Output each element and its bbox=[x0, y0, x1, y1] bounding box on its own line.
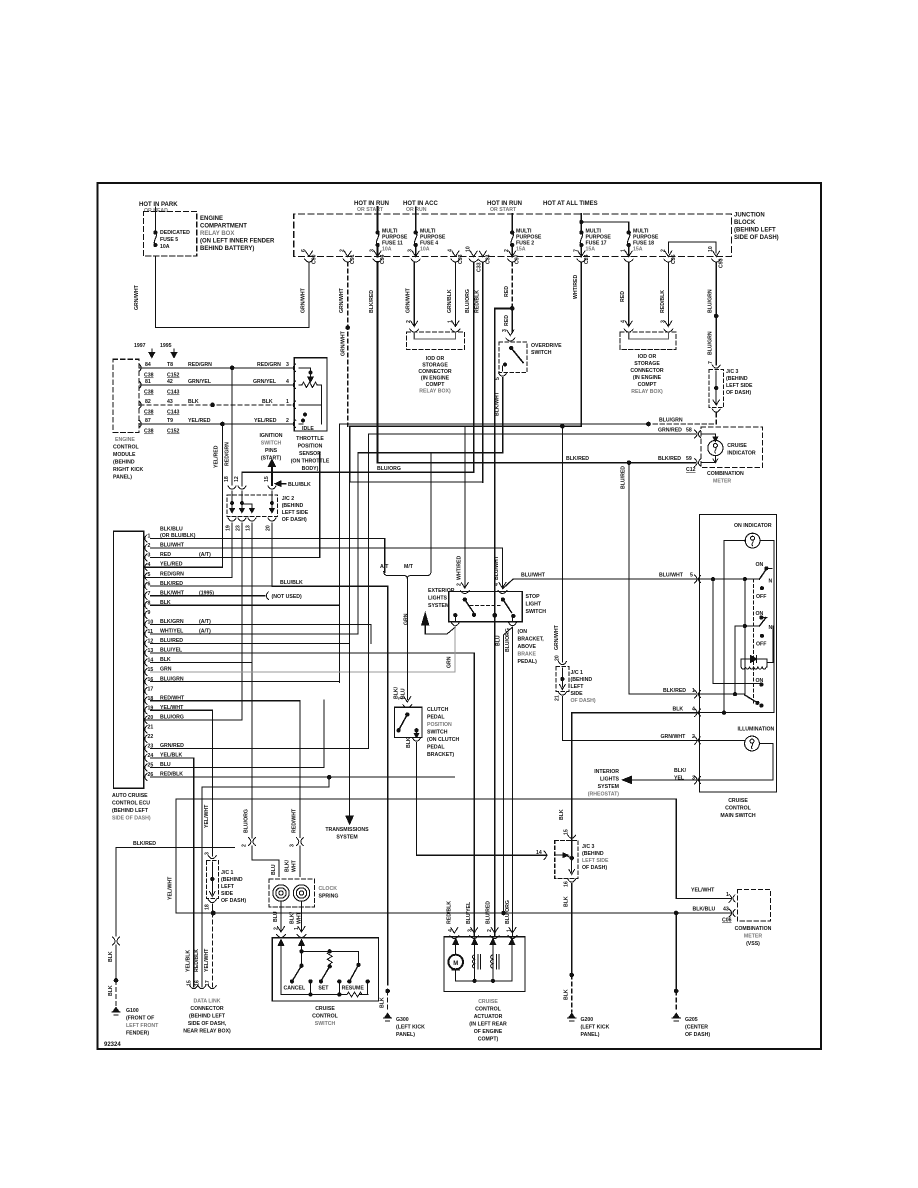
svg-text:4: 4 bbox=[148, 562, 151, 568]
svg-text:92324: 92324 bbox=[104, 1042, 121, 1048]
svg-text:3: 3 bbox=[660, 320, 666, 323]
svg-text:21: 21 bbox=[555, 695, 561, 701]
svg-text:BODY): BODY) bbox=[302, 466, 319, 472]
svg-text:GRN/YEL: GRN/YEL bbox=[253, 379, 277, 385]
svg-text:BLK/: BLK/ bbox=[394, 686, 400, 699]
pin 1 inner rail bbox=[511, 943, 513, 949]
wire BLK from clutch switch to J/C3 lower bbox=[417, 743, 548, 856]
clock spring box bbox=[269, 879, 315, 907]
svg-text:C94: C94 bbox=[380, 254, 386, 264]
svg-text:IOD OR: IOD OR bbox=[426, 356, 445, 362]
svg-text:7: 7 bbox=[573, 249, 579, 252]
wire BLU/ORG horizontal into J/C2 bbox=[242, 472, 474, 486]
J/C 3 connector (lower) bbox=[544, 851, 547, 859]
wire BLK/RED C94-3 down bbox=[377, 262, 379, 463]
coil 2 bbox=[492, 943, 494, 955]
break connector on BLK wire bbox=[113, 937, 120, 945]
connector arcs C12 pins 58/59 bbox=[695, 430, 701, 438]
diode and coil bbox=[741, 659, 767, 667]
combination meter VSS dashed box bbox=[737, 889, 770, 921]
svg-text:OR START: OR START bbox=[490, 207, 517, 213]
wire BLK pin4 to G200 bbox=[572, 713, 700, 860]
svg-text:(IN ENGINE: (IN ENGINE bbox=[633, 375, 662, 381]
overdrive switch bbox=[506, 330, 515, 341]
svg-text:CANCEL: CANCEL bbox=[284, 986, 306, 992]
interior lights system arrow bbox=[623, 776, 632, 783]
connector C94 pin 3 bbox=[373, 251, 382, 262]
engine control module dashed box bbox=[113, 359, 139, 432]
svg-text:PINS: PINS bbox=[265, 448, 278, 454]
svg-text:C93: C93 bbox=[458, 254, 464, 264]
svg-text:RELAY BOX: RELAY BOX bbox=[200, 231, 234, 237]
ground G100 bbox=[112, 1007, 120, 1014]
svg-text:ON INDICATOR: ON INDICATOR bbox=[734, 523, 772, 529]
svg-text:OFF: OFF bbox=[756, 642, 766, 648]
connector C91 pin 2 bbox=[343, 251, 352, 262]
wire ECU pin 10 row bbox=[151, 623, 371, 625]
svg-text:YEL/BLK: YEL/BLK bbox=[185, 950, 191, 972]
svg-text:SIDE OF DASH): SIDE OF DASH) bbox=[112, 816, 151, 822]
ECU pin 20 BLU/ORG bbox=[145, 716, 147, 723]
BLK/RED pin 1 row bbox=[700, 693, 745, 695]
svg-text:RED/GRN: RED/GRN bbox=[257, 362, 281, 368]
svg-text:2: 2 bbox=[504, 249, 510, 252]
svg-text:G100: G100 bbox=[126, 1008, 139, 1014]
IOD or storage connector box 2 bbox=[620, 332, 676, 350]
svg-text:C152: C152 bbox=[167, 429, 180, 435]
svg-text:IDLE: IDLE bbox=[302, 426, 314, 432]
svg-text:(BEHIND: (BEHIND bbox=[582, 851, 604, 857]
svg-text:YEL/RED: YEL/RED bbox=[214, 445, 220, 468]
wire ECU pin 24 row bbox=[151, 757, 194, 759]
svg-text:BLU/BLK: BLU/BLK bbox=[280, 580, 303, 586]
svg-text:18: 18 bbox=[224, 476, 230, 482]
svg-text:COMPT: COMPT bbox=[426, 382, 446, 388]
svg-text:BLK: BLK bbox=[563, 896, 569, 907]
svg-text:(BEHIND: (BEHIND bbox=[221, 877, 243, 883]
svg-text:WHT: WHT bbox=[297, 911, 303, 924]
svg-text:(LEFT KICK: (LEFT KICK bbox=[581, 1025, 610, 1031]
svg-text:FENDER): FENDER) bbox=[126, 1031, 149, 1037]
svg-text:J/C 1: J/C 1 bbox=[571, 670, 584, 676]
svg-text:3: 3 bbox=[205, 852, 211, 855]
wire GRN/WHT vertical segment bbox=[349, 426, 351, 482]
svg-text:BLK: BLK bbox=[406, 737, 412, 748]
svg-text:2: 2 bbox=[242, 844, 248, 847]
svg-text:(ON LEFT INNER FENDER: (ON LEFT INNER FENDER bbox=[200, 239, 275, 245]
svg-text:YEL/RED: YEL/RED bbox=[188, 418, 211, 424]
svg-text:(BEHIND: (BEHIND bbox=[571, 677, 593, 683]
svg-text:CONTROL: CONTROL bbox=[312, 1014, 338, 1020]
svg-text:BLOCK: BLOCK bbox=[734, 220, 756, 226]
svg-text:4: 4 bbox=[286, 379, 289, 385]
wire into fuse 5 bbox=[154, 207, 156, 232]
svg-text:C24: C24 bbox=[584, 254, 590, 264]
svg-text:GRN/WHT: GRN/WHT bbox=[134, 284, 140, 310]
svg-text:(BEHIND LEFT: (BEHIND LEFT bbox=[112, 808, 149, 814]
svg-text:ABOVE: ABOVE bbox=[518, 644, 537, 650]
svg-text:BLU/RED: BLU/RED bbox=[621, 466, 627, 489]
svg-text:1: 1 bbox=[621, 249, 627, 252]
bottom bus with resistor bbox=[281, 994, 347, 996]
wire RED (A/T) pin 3 vertical bbox=[319, 453, 321, 558]
ground G300 wire bbox=[386, 989, 390, 993]
wire YEL/BLK pin 24 down to data link bbox=[193, 758, 195, 987]
svg-text:10A: 10A bbox=[382, 247, 392, 253]
svg-text:SYSTEM: SYSTEM bbox=[336, 835, 357, 841]
svg-text:BLU/WHT: BLU/WHT bbox=[494, 555, 500, 580]
svg-text:WHT: WHT bbox=[292, 859, 298, 872]
wire ECU pin 16 row bbox=[151, 681, 340, 683]
svg-text:C33: C33 bbox=[476, 262, 482, 272]
J/C 3 connector (upper) bbox=[712, 365, 720, 368]
svg-text:FUSE 5: FUSE 5 bbox=[160, 237, 178, 243]
connector C34 pin 9 bbox=[478, 251, 487, 262]
wire A/T stem from ECU pin 1 bbox=[384, 538, 386, 572]
bulb left rail to BLK pin bbox=[724, 541, 745, 713]
auto cruise control ECU connector box bbox=[114, 531, 144, 788]
svg-text:EXTERIOR: EXTERIOR bbox=[428, 588, 455, 594]
svg-text:GRN/WHT: GRN/WHT bbox=[301, 287, 307, 313]
connector pin 1 bbox=[624, 251, 633, 262]
svg-text:1997: 1997 bbox=[134, 343, 146, 349]
svg-text:BLK/RED: BLK/RED bbox=[133, 841, 156, 847]
wire GRN/WHT to IOD bbox=[413, 262, 415, 326]
svg-text:1: 1 bbox=[294, 927, 300, 930]
svg-text:2: 2 bbox=[406, 320, 412, 323]
svg-text:LIGHT: LIGHT bbox=[526, 602, 542, 608]
svg-text:T8: T8 bbox=[167, 362, 173, 368]
svg-text:YEL: YEL bbox=[674, 776, 685, 782]
IOD connector 2 arcs pins 4,3 bbox=[624, 321, 633, 332]
svg-text:OR START: OR START bbox=[357, 207, 384, 213]
svg-text:POSITION: POSITION bbox=[298, 444, 323, 450]
svg-text:BLK: BLK bbox=[108, 985, 114, 996]
svg-text:81: 81 bbox=[145, 379, 151, 385]
wire RED/BLK horizontal bbox=[350, 481, 483, 483]
svg-text:20: 20 bbox=[266, 525, 272, 531]
svg-text:BLK/RED: BLK/RED bbox=[658, 456, 681, 462]
wire ECU pin 25 row bbox=[151, 767, 325, 769]
svg-text:10: 10 bbox=[466, 246, 472, 252]
wire GRN/RED vertical to ECU pin 23 bbox=[367, 434, 369, 749]
svg-text:BLK: BLK bbox=[188, 399, 199, 405]
dashed link bbox=[752, 579, 754, 704]
svg-text:BRACKET): BRACKET) bbox=[427, 752, 454, 758]
svg-text:BLK: BLK bbox=[559, 809, 565, 820]
wire YEL/RED vertical to J/C2 bypass bbox=[144, 424, 223, 567]
wire BLU/BLK from J/C2-20 to right bbox=[272, 585, 388, 587]
svg-text:OF DASH): OF DASH) bbox=[726, 390, 751, 396]
svg-text:GRN/WHT: GRN/WHT bbox=[661, 734, 687, 740]
svg-text:ACTUATOR: ACTUATOR bbox=[474, 1014, 503, 1020]
svg-text:RED/BLK: RED/BLK bbox=[446, 901, 452, 924]
svg-text:15A: 15A bbox=[586, 247, 596, 253]
ECU pin 3 RED bbox=[145, 554, 147, 561]
svg-text:C06: C06 bbox=[722, 918, 732, 924]
ECM row 2 GRN/YEL bbox=[140, 384, 294, 386]
wire RED C97-2 down (dashed then solid) bbox=[511, 262, 513, 308]
wire J/C2-20 BLU/BLK down bbox=[271, 523, 273, 586]
wire BLU down-left from stop light switch bbox=[504, 627, 513, 913]
BLK pin 4 row bbox=[700, 712, 775, 714]
svg-text:SPRING: SPRING bbox=[319, 894, 339, 900]
svg-text:PANEL): PANEL) bbox=[113, 475, 132, 481]
svg-text:SENSOR: SENSOR bbox=[299, 451, 321, 457]
resume switch bbox=[357, 963, 360, 966]
wire ECU pin 26 row bbox=[151, 776, 455, 778]
wire GRN/BLK to IOD bbox=[454, 262, 456, 326]
svg-text:BLU/YEL: BLU/YEL bbox=[466, 901, 472, 924]
svg-text:59: 59 bbox=[686, 456, 692, 462]
border frame bbox=[98, 183, 822, 1049]
svg-text:13: 13 bbox=[246, 525, 252, 531]
ECU pin 21 nc bbox=[145, 726, 147, 733]
svg-text:YEL/WHT: YEL/WHT bbox=[204, 948, 210, 972]
svg-text:BLU: BLU bbox=[495, 635, 501, 646]
svg-text:METER: METER bbox=[744, 934, 762, 940]
svg-text:BLU/GRN: BLU/GRN bbox=[708, 289, 714, 313]
svg-text:BLK/RED: BLK/RED bbox=[369, 290, 375, 313]
svg-text:2: 2 bbox=[660, 249, 666, 252]
svg-text:BLK/: BLK/ bbox=[290, 911, 296, 924]
wire YEL/WHT below J/C1 to junction dot bbox=[211, 904, 213, 913]
svg-text:C38: C38 bbox=[144, 390, 154, 396]
svg-text:GRN/YEL: GRN/YEL bbox=[188, 379, 212, 385]
svg-text:CRUISE: CRUISE bbox=[315, 1006, 335, 1012]
wire RED fuse 18 down to IOD 2 bbox=[628, 262, 630, 326]
svg-text:C90: C90 bbox=[312, 254, 318, 264]
svg-text:2: 2 bbox=[692, 734, 695, 740]
svg-text:17: 17 bbox=[205, 980, 211, 986]
svg-text:BEHIND BATTERY): BEHIND BATTERY) bbox=[200, 246, 254, 252]
wire BLK/WHT to clock spring bbox=[299, 846, 301, 877]
svg-text:SWITCH: SWITCH bbox=[531, 350, 552, 356]
ECU pin 22 nc bbox=[145, 735, 147, 742]
cruise indicator bulb bbox=[701, 434, 716, 439]
svg-text:COMBINATION: COMBINATION bbox=[735, 926, 772, 932]
TPS idle switch bbox=[304, 413, 307, 416]
svg-text:(CENTER: (CENTER bbox=[685, 1025, 708, 1031]
wire RED/WHT pin 18 break connector 3 bbox=[299, 701, 301, 838]
svg-text:43: 43 bbox=[723, 907, 729, 913]
clutch pedal position switch bbox=[403, 697, 412, 708]
switch 1 bbox=[760, 570, 767, 580]
ECU pin 15 GRN bbox=[145, 668, 147, 675]
common bus bbox=[302, 951, 359, 964]
svg-text:SYSTEM: SYSTEM bbox=[428, 603, 449, 609]
svg-text:RED/BLK: RED/BLK bbox=[194, 949, 200, 972]
wire YEL/WHT dashed down to data link bbox=[211, 913, 213, 987]
svg-text:PANEL): PANEL) bbox=[396, 1032, 415, 1038]
svg-text:1: 1 bbox=[447, 320, 453, 323]
ECU pin 9 nc bbox=[145, 611, 147, 618]
svg-text:TRANSMISSIONS: TRANSMISSIONS bbox=[325, 827, 369, 833]
svg-text:C12: C12 bbox=[686, 467, 696, 473]
svg-text:1: 1 bbox=[692, 688, 695, 694]
stop light switch contacts bbox=[463, 598, 466, 601]
coil 1 bbox=[474, 943, 476, 955]
svg-text:BLK/WHT: BLK/WHT bbox=[495, 391, 501, 416]
ground G205 wire bbox=[674, 911, 678, 915]
svg-text:(RHEOSTAT): (RHEOSTAT) bbox=[588, 792, 619, 798]
svg-text:PEDAL: PEDAL bbox=[427, 715, 445, 721]
motor bbox=[455, 943, 457, 955]
svg-text:RED: RED bbox=[620, 291, 626, 302]
wire J/C2-19 to ECU pin 5 bbox=[144, 523, 232, 577]
set switch with resistor bbox=[327, 951, 332, 964]
throttle position sensor box bbox=[294, 358, 327, 431]
svg-text:12: 12 bbox=[234, 476, 240, 482]
wire fuse5 GRN/WHT down bbox=[155, 256, 309, 327]
wire to exterior lights system (arrow up) bbox=[425, 624, 455, 634]
wire GRN/WHT J/C1 to main switch pin 2 bbox=[562, 697, 697, 741]
svg-text:OF ENGINE: OF ENGINE bbox=[474, 1029, 503, 1035]
svg-text:(NOT USED): (NOT USED) bbox=[272, 594, 303, 600]
svg-text:82: 82 bbox=[145, 399, 151, 405]
svg-text:GRN/RED: GRN/RED bbox=[658, 428, 682, 434]
svg-text:(ON: (ON bbox=[518, 629, 528, 635]
svg-text:BLU/BLK: BLU/BLK bbox=[288, 482, 311, 488]
svg-text:RED: RED bbox=[504, 315, 510, 326]
pin arcs on main switch left edge bbox=[695, 575, 701, 583]
ECU pin 17 nc bbox=[145, 688, 147, 695]
svg-text:C91: C91 bbox=[350, 254, 356, 264]
svg-text:SET: SET bbox=[318, 986, 329, 992]
ground G300 bbox=[384, 1013, 392, 1020]
svg-text:ILLUMINATION: ILLUMINATION bbox=[738, 727, 775, 733]
wire ECU pin 18 row bbox=[151, 700, 300, 702]
svg-text:SYSTEM: SYSTEM bbox=[598, 784, 619, 790]
wire RED/BLK C34 down bbox=[482, 262, 484, 482]
svg-text:PEDAL): PEDAL) bbox=[518, 659, 538, 665]
svg-text:LEFT SIDE: LEFT SIDE bbox=[282, 510, 309, 516]
wire J/C2-13 BLU/ORG long down to break 2 bbox=[251, 523, 253, 838]
svg-text:SWITCH: SWITCH bbox=[526, 609, 547, 615]
svg-text:ON: ON bbox=[756, 562, 764, 568]
svg-text:C143: C143 bbox=[167, 410, 180, 416]
svg-text:ENGINE: ENGINE bbox=[200, 216, 223, 222]
svg-text:(BEHIND LEFT: (BEHIND LEFT bbox=[734, 228, 776, 234]
svg-text:N: N bbox=[769, 625, 773, 631]
wire BLU/WHT from stop light switch to cruise main switch bbox=[503, 579, 698, 589]
svg-text:C38: C38 bbox=[144, 410, 154, 416]
svg-text:OF DASH): OF DASH) bbox=[221, 898, 246, 904]
svg-text:C95: C95 bbox=[671, 254, 677, 264]
wire ECU pin 3 row bbox=[151, 557, 320, 559]
svg-text:15: 15 bbox=[187, 980, 193, 986]
svg-text:N: N bbox=[769, 579, 773, 585]
connector C94 pin 7 bbox=[577, 251, 586, 262]
wire BLU/ORG down from stop light switch to actuator pin 1 bbox=[512, 627, 514, 937]
svg-text:CONTROL: CONTROL bbox=[475, 1007, 501, 1013]
svg-text:BLU/ORG: BLU/ORG bbox=[465, 289, 471, 313]
svg-text:OR RUN: OR RUN bbox=[406, 207, 427, 213]
svg-text:COMPT: COMPT bbox=[638, 382, 658, 388]
svg-text:BLU/GRN: BLU/GRN bbox=[659, 418, 683, 424]
bracket connector for C95/C93 pins bbox=[668, 242, 716, 253]
wire WHT/RED down to stop light switch bbox=[464, 426, 466, 588]
ECU pin 10 BLK/GRN bbox=[145, 621, 147, 628]
cruise control actuator box bbox=[444, 937, 525, 992]
wire ECU pin 23 row bbox=[151, 747, 369, 749]
svg-text:RED/BLK: RED/BLK bbox=[474, 290, 480, 313]
svg-text:BLU/WHT: BLU/WHT bbox=[659, 573, 684, 579]
svg-text:16: 16 bbox=[563, 881, 569, 887]
svg-text:BLK/BLU: BLK/BLU bbox=[160, 527, 183, 533]
svg-text:1: 1 bbox=[726, 892, 729, 898]
svg-text:LEFT: LEFT bbox=[221, 884, 235, 890]
svg-text:BLU: BLU bbox=[273, 911, 279, 922]
svg-text:INDICATOR: INDICATOR bbox=[727, 451, 756, 457]
svg-text:M/T: M/T bbox=[404, 564, 414, 570]
wire BLK/RED horizontal to combination meter bbox=[378, 462, 696, 464]
svg-text:5: 5 bbox=[690, 573, 693, 579]
svg-text:(IN ENGINE: (IN ENGINE bbox=[421, 376, 450, 382]
svg-text:3: 3 bbox=[692, 776, 695, 782]
wire RED branch to stop light switch / actuator bbox=[495, 308, 513, 936]
svg-text:SWITCH: SWITCH bbox=[315, 1021, 336, 1027]
svg-text:CLOCK: CLOCK bbox=[319, 886, 338, 892]
ECU pin 14 BLK bbox=[145, 659, 147, 666]
svg-text:J/C 3: J/C 3 bbox=[726, 369, 739, 375]
svg-text:IOD OR: IOD OR bbox=[638, 354, 657, 360]
ECU pin 11 WHT/YEL bbox=[145, 630, 147, 637]
svg-text:RELAY BOX): RELAY BOX) bbox=[419, 389, 451, 395]
ECU pin 12 BLU/RED bbox=[145, 640, 147, 647]
svg-text:OF DASH): OF DASH) bbox=[282, 517, 307, 523]
BLU/WHT pin 5 row inside bbox=[700, 578, 760, 580]
wire BLK/BLU to VSS pin 43 bbox=[213, 912, 730, 914]
J/C 1 connector (left) bbox=[208, 856, 216, 859]
svg-text:BLK: BLK bbox=[379, 997, 385, 1008]
svg-text:SIDE: SIDE bbox=[571, 691, 584, 697]
connector pin 3 (IOD) bbox=[411, 251, 420, 262]
svg-text:4: 4 bbox=[494, 583, 500, 586]
svg-text:CONTROL ECU: CONTROL ECU bbox=[112, 801, 150, 807]
fuse 18 bbox=[627, 231, 630, 234]
combination meter (cruise indicator) dashed box bbox=[701, 427, 763, 467]
wire ECU pin 2 row bbox=[151, 547, 503, 549]
ECM row 3 BLK dashed bbox=[140, 404, 294, 406]
svg-text:4: 4 bbox=[447, 249, 453, 252]
svg-text:YEL/WHT: YEL/WHT bbox=[168, 876, 174, 900]
fuse 17 bbox=[580, 231, 583, 234]
wire GRN/RED horizontal to cruise indicator bbox=[368, 433, 695, 435]
svg-text:42: 42 bbox=[167, 379, 173, 385]
ECU pin 2 BLU/WHT bbox=[145, 544, 147, 551]
svg-text:22: 22 bbox=[148, 734, 154, 740]
wire M/T stem bbox=[430, 453, 432, 573]
ECU pin 24 YEL/BLK bbox=[145, 754, 147, 761]
svg-text:SIDE: SIDE bbox=[221, 891, 234, 897]
svg-text:84: 84 bbox=[145, 362, 151, 368]
svg-text:RESUME: RESUME bbox=[342, 986, 365, 992]
svg-text:GRN: GRN bbox=[404, 613, 410, 625]
svg-text:4: 4 bbox=[621, 320, 627, 323]
ECM row 1 RED/GRN bbox=[140, 367, 294, 369]
svg-text:J/C 1: J/C 1 bbox=[221, 870, 234, 876]
wire ECU pin 11 row bbox=[151, 633, 358, 635]
svg-text:RED: RED bbox=[504, 286, 510, 297]
svg-text:SWITCH: SWITCH bbox=[427, 730, 448, 736]
svg-text:OF DASH): OF DASH) bbox=[571, 698, 596, 704]
svg-text:C152: C152 bbox=[167, 373, 180, 379]
svg-text:RED/WHT: RED/WHT bbox=[292, 808, 298, 833]
svg-text:BLU: BLU bbox=[271, 864, 277, 875]
feed wire fuse 17 with tee to fuse 18 bbox=[580, 214, 582, 232]
wire ECU pin 1 row bbox=[151, 537, 385, 539]
